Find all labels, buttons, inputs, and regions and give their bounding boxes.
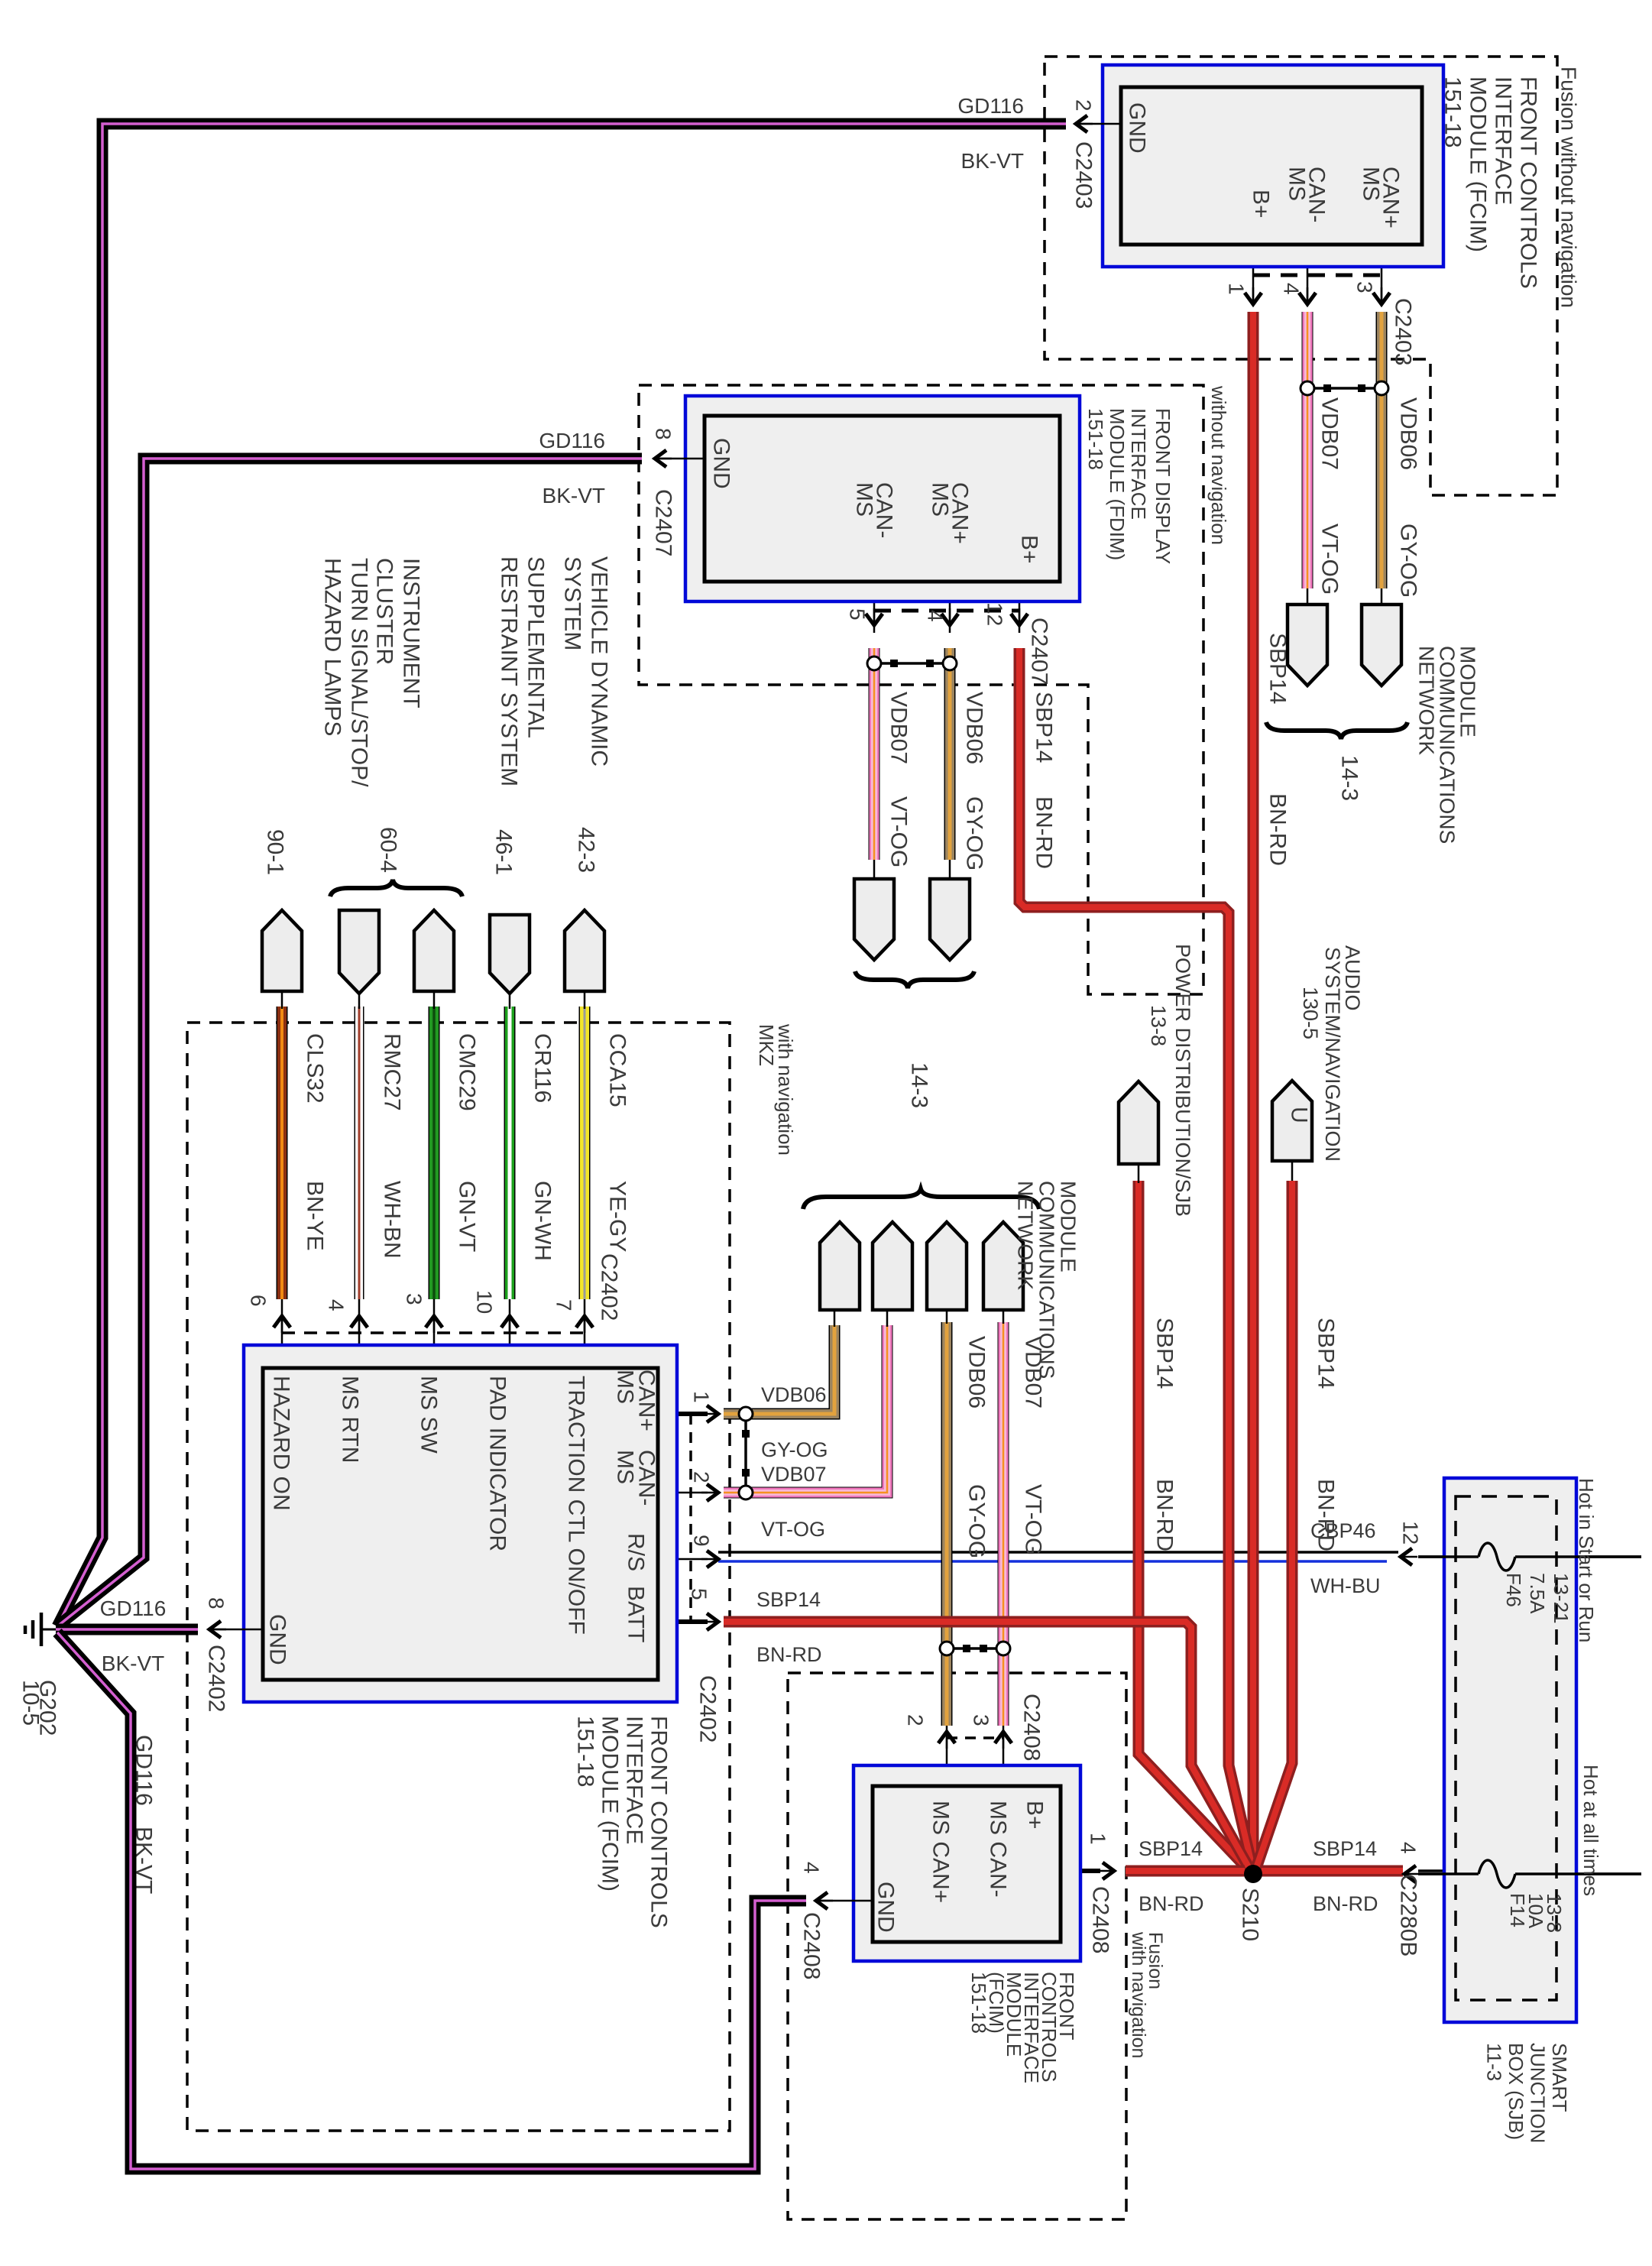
svg-text:BK-VT: BK-VT (543, 484, 605, 507)
svg-text:CLS32: CLS32 (303, 1033, 328, 1104)
svg-text:GN-WH: GN-WH (530, 1181, 556, 1261)
svg-text:with navigation: with navigation (774, 1023, 797, 1156)
svg-text:CAN-: CAN- (1304, 167, 1330, 222)
svg-text:with navigation: with navigation (1128, 1931, 1149, 2058)
svg-text:BK-VT: BK-VT (961, 149, 1024, 173)
svg-text:INTERFACE: INTERFACE (1127, 408, 1150, 520)
svg-text:VDB06: VDB06 (1396, 397, 1421, 470)
svg-text:CCA15: CCA15 (605, 1033, 630, 1107)
svg-text:MS SW: MS SW (416, 1376, 442, 1454)
svg-text:C2280B: C2280B (1396, 1874, 1421, 1956)
svg-text:CAN+: CAN+ (1378, 167, 1404, 229)
svg-text:BATT: BATT (624, 1586, 649, 1642)
svg-text:10: 10 (473, 1290, 497, 1314)
svg-text:C2407: C2407 (1027, 618, 1052, 685)
svg-text:GND: GND (873, 1882, 899, 1933)
svg-text:7: 7 (552, 1299, 576, 1311)
svg-text:5: 5 (688, 1588, 711, 1600)
svg-text:BN-RD: BN-RD (1265, 793, 1291, 866)
svg-text:VDB06: VDB06 (761, 1383, 827, 1406)
svg-text:C2408: C2408 (1019, 1694, 1045, 1761)
svg-text:NETWORK: NETWORK (1415, 646, 1439, 755)
svg-text:RMC27: RMC27 (380, 1033, 405, 1111)
svg-text:151-18: 151-18 (967, 1972, 990, 2034)
svg-text:BN-RD: BN-RD (1032, 796, 1057, 869)
svg-text:4: 4 (800, 1862, 824, 1874)
svg-text:GY-OG: GY-OG (1396, 524, 1421, 598)
svg-text:SBP14: SBP14 (1032, 692, 1057, 763)
svg-text:1: 1 (690, 1391, 714, 1403)
svg-text:without navigation: without navigation (1207, 385, 1230, 545)
svg-text:CLUSTER: CLUSTER (372, 558, 397, 665)
svg-text:3: 3 (403, 1293, 426, 1305)
svg-text:FRONT DISPLAY: FRONT DISPLAY (1152, 408, 1174, 564)
svg-text:CR116: CR116 (530, 1033, 556, 1103)
svg-text:MODULE (FCIM): MODULE (FCIM) (1466, 76, 1491, 252)
svg-text:13-8: 13-8 (1147, 1005, 1170, 1046)
svg-text:CMC29: CMC29 (455, 1033, 480, 1111)
svg-text:TURN SIGNAL/STOP/: TURN SIGNAL/STOP/ (347, 558, 372, 787)
svg-text:130-5: 130-5 (1299, 987, 1322, 1039)
svg-text:VDB07: VDB07 (761, 1463, 827, 1486)
svg-text:INSTRUMENT: INSTRUMENT (399, 558, 424, 708)
svg-text:151-18: 151-18 (1440, 76, 1466, 148)
svg-text:C2407: C2407 (651, 489, 676, 556)
svg-text:HAZARD LAMPS: HAZARD LAMPS (320, 558, 345, 736)
svg-text:MODULE (FCIM): MODULE (FCIM) (598, 1716, 623, 1892)
svg-text:2: 2 (904, 1714, 928, 1726)
svg-text:VDB07: VDB07 (1317, 397, 1343, 470)
svg-text:CAN+: CAN+ (634, 1370, 659, 1431)
svg-text:VDB06: VDB06 (962, 692, 987, 764)
svg-text:1: 1 (1087, 1833, 1110, 1845)
svg-text:BN-RD: BN-RD (756, 1643, 822, 1666)
svg-text:SBP14: SBP14 (1152, 1318, 1177, 1389)
svg-text:CAN+: CAN+ (947, 482, 973, 544)
svg-text:BN-RD: BN-RD (1314, 1479, 1339, 1551)
svg-text:GN-VT: GN-VT (455, 1181, 480, 1252)
svg-text:GND: GND (265, 1614, 290, 1665)
svg-text:BK-VT: BK-VT (131, 1827, 157, 1894)
svg-text:3: 3 (970, 1714, 993, 1726)
svg-text:42-3: 42-3 (574, 827, 599, 873)
svg-text:WH-BN: WH-BN (380, 1181, 405, 1259)
svg-text:SBP14: SBP14 (1314, 1318, 1339, 1389)
svg-text:VDB07: VDB07 (886, 692, 912, 764)
svg-text:C2403: C2403 (1071, 141, 1096, 209)
svg-text:VT-OG: VT-OG (1317, 524, 1343, 595)
svg-text:MS RTN: MS RTN (338, 1376, 363, 1463)
svg-text:3: 3 (1353, 281, 1377, 293)
svg-text:SBP14: SBP14 (1313, 1837, 1377, 1860)
svg-text:GND: GND (1125, 102, 1150, 154)
svg-text:GY-OG: GY-OG (962, 796, 987, 870)
svg-text:POWER DISTRIBUTION/SJB: POWER DISTRIBUTION/SJB (1171, 944, 1194, 1217)
svg-text:YE-GY: YE-GY (605, 1181, 630, 1252)
svg-text:SMART: SMART (1548, 2043, 1571, 2112)
svg-text:CAN-: CAN- (872, 482, 897, 538)
svg-text:13-21: 13-21 (1550, 1573, 1573, 1624)
svg-text:BN-YE: BN-YE (303, 1181, 328, 1251)
svg-text:BN-RD: BN-RD (1313, 1892, 1378, 1915)
svg-text:13-8: 13-8 (1543, 1893, 1566, 1933)
svg-text:VT-OG: VT-OG (1021, 1484, 1046, 1555)
svg-text:C2402: C2402 (695, 1675, 721, 1742)
svg-text:COMMUNICATIONS: COMMUNICATIONS (1035, 1181, 1059, 1379)
svg-text:C2402: C2402 (597, 1253, 622, 1321)
svg-text:INTERFACE: INTERFACE (622, 1716, 647, 1844)
svg-text:14-3: 14-3 (907, 1062, 932, 1108)
svg-text:GD116: GD116 (100, 1597, 167, 1620)
svg-text:PAD INDICATOR: PAD INDICATOR (485, 1376, 510, 1551)
svg-text:151-18: 151-18 (1084, 408, 1107, 470)
svg-text:1: 1 (1225, 283, 1249, 295)
svg-text:SBP14: SBP14 (1139, 1837, 1203, 1860)
svg-text:46-1: 46-1 (491, 829, 517, 875)
svg-text:9: 9 (690, 1535, 714, 1547)
svg-text:FRONT CONTROLS: FRONT CONTROLS (1516, 76, 1541, 289)
svg-text:SYSTEM: SYSTEM (560, 556, 585, 650)
svg-text:HAZARD ON: HAZARD ON (269, 1376, 294, 1511)
svg-text:RESTRAINT SYSTEM: RESTRAINT SYSTEM (497, 556, 522, 786)
svg-text:Hot at all times: Hot at all times (1579, 1765, 1602, 1896)
svg-text:GD116: GD116 (131, 1735, 157, 1806)
svg-text:VDB06: VDB06 (964, 1336, 990, 1409)
svg-text:WH-BU: WH-BU (1310, 1574, 1380, 1597)
svg-text:BK-VT: BK-VT (102, 1652, 164, 1675)
svg-text:151-18: 151-18 (573, 1716, 598, 1787)
svg-text:SYSTEM/NAVIGATION: SYSTEM/NAVIGATION (1321, 947, 1344, 1162)
svg-text:Hot in Start or Run: Hot in Start or Run (1575, 1478, 1598, 1642)
svg-text:CAN-: CAN- (634, 1450, 659, 1506)
svg-text:NETWORK: NETWORK (1014, 1181, 1038, 1290)
svg-text:5: 5 (846, 608, 870, 621)
svg-text:R/S: R/S (624, 1533, 649, 1571)
svg-text:TRACTION CTL ON/OFF: TRACTION CTL ON/OFF (564, 1376, 589, 1635)
svg-text:GY-OG: GY-OG (964, 1484, 990, 1558)
svg-text:VT-OG: VT-OG (761, 1518, 825, 1541)
svg-text:7.5A: 7.5A (1526, 1573, 1549, 1614)
svg-text:11-3: 11-3 (1483, 2043, 1506, 2081)
svg-text:8: 8 (652, 428, 675, 440)
svg-text:SBP14: SBP14 (1265, 633, 1291, 704)
svg-text:MS CAN+: MS CAN+ (928, 1801, 954, 1903)
svg-text:VEHICLE DYNAMIC: VEHICLE DYNAMIC (587, 556, 612, 767)
svg-text:F46: F46 (1502, 1573, 1525, 1607)
svg-text:C2408: C2408 (1088, 1886, 1113, 1953)
svg-text:2: 2 (690, 1471, 714, 1483)
svg-text:C2402: C2402 (204, 1645, 229, 1712)
svg-text:BN-RD: BN-RD (1152, 1479, 1177, 1551)
svg-text:B+: B+ (1249, 190, 1274, 219)
svg-text:MS CAN-: MS CAN- (986, 1801, 1011, 1898)
svg-text:GD116: GD116 (957, 94, 1024, 118)
svg-text:VT-OG: VT-OG (886, 796, 912, 867)
svg-text:INTERFACE: INTERFACE (1491, 76, 1516, 205)
svg-text:4: 4 (1280, 283, 1304, 295)
svg-text:MODULE (FDIM): MODULE (FDIM) (1106, 408, 1129, 560)
svg-text:12: 12 (983, 602, 1007, 626)
svg-text:BOX (SJB): BOX (SJB) (1505, 2043, 1527, 2140)
svg-text:GND: GND (709, 438, 734, 489)
svg-text:12: 12 (1399, 1521, 1423, 1545)
svg-text:S210: S210 (1238, 1888, 1263, 1941)
svg-text:4: 4 (924, 610, 947, 622)
svg-text:U: U (1287, 1107, 1312, 1123)
svg-text:SBP14: SBP14 (756, 1588, 821, 1611)
svg-text:JUNCTION: JUNCTION (1527, 2043, 1550, 2143)
svg-text:SUPPLEMENTAL: SUPPLEMENTAL (523, 556, 549, 738)
svg-text:60-4: 60-4 (376, 827, 401, 873)
svg-text:14-3: 14-3 (1337, 755, 1362, 801)
svg-text:90-1: 90-1 (263, 829, 288, 875)
svg-text:GY-OG: GY-OG (761, 1438, 828, 1461)
svg-text:GD116: GD116 (539, 429, 605, 452)
svg-text:B+: B+ (1022, 1801, 1048, 1830)
svg-text:8: 8 (205, 1597, 228, 1610)
svg-text:MODULE: MODULE (1057, 1181, 1080, 1272)
svg-text:6: 6 (247, 1295, 270, 1307)
svg-text:C2403: C2403 (1391, 298, 1416, 365)
svg-text:10-5: 10-5 (18, 1680, 44, 1726)
svg-text:2: 2 (1072, 99, 1096, 112)
svg-text:4: 4 (1397, 1842, 1420, 1854)
svg-text:B+: B+ (1017, 535, 1042, 564)
svg-text:Fusion without navigation: Fusion without navigation (1557, 66, 1581, 308)
svg-text:FRONT CONTROLS: FRONT CONTROLS (646, 1716, 672, 1928)
svg-text:C2408: C2408 (799, 1912, 824, 1979)
svg-text:BN-RD: BN-RD (1139, 1892, 1204, 1915)
svg-text:4: 4 (325, 1299, 348, 1311)
